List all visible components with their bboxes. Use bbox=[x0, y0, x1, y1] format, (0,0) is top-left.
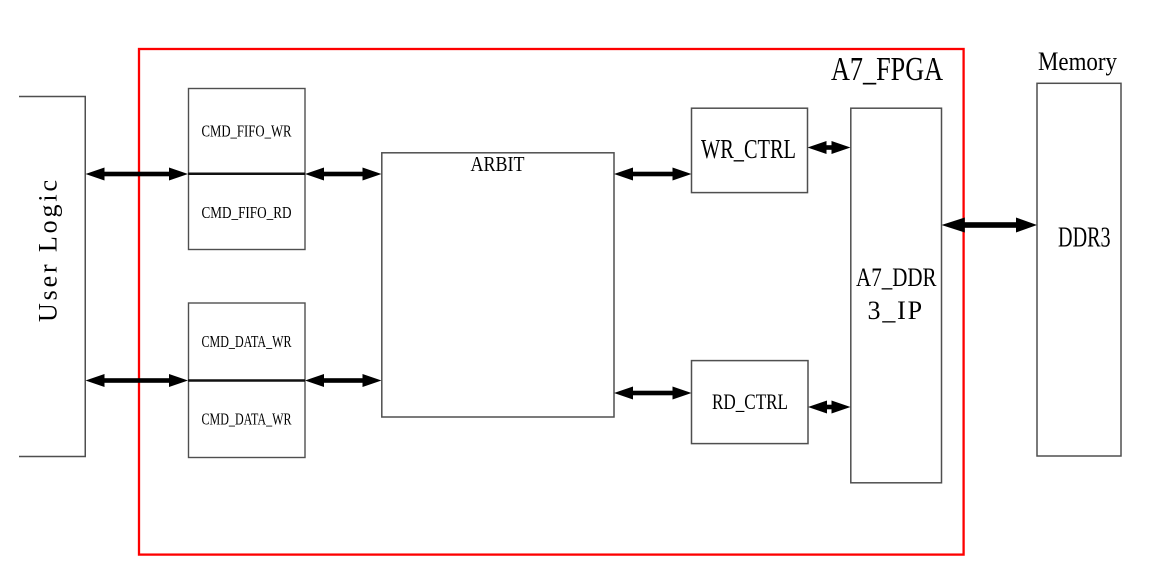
svg-text:CMD_FIFO_RD: CMD_FIFO_RD bbox=[202, 203, 292, 222]
svg-text:User Logic: User Logic bbox=[34, 180, 63, 322]
svg-text:A7_FPGA: A7_FPGA bbox=[831, 51, 943, 88]
svg-text:DDR3: DDR3 bbox=[1058, 223, 1111, 254]
svg-text:RD_CTRL: RD_CTRL bbox=[712, 389, 788, 414]
svg-text:A7_DDR: A7_DDR bbox=[856, 263, 937, 292]
svg-text:CMD_FIFO_WR: CMD_FIFO_WR bbox=[202, 121, 292, 140]
svg-text:Memory: Memory bbox=[1038, 47, 1117, 76]
svg-text:WR_CTRL: WR_CTRL bbox=[701, 134, 796, 164]
svg-text:CMD_DATA_WR: CMD_DATA_WR bbox=[202, 332, 292, 351]
svg-text:CMD_DATA_WR: CMD_DATA_WR bbox=[202, 410, 292, 429]
svg-text:ARBIT: ARBIT bbox=[471, 152, 525, 176]
svg-text:3_IP: 3_IP bbox=[868, 296, 923, 325]
